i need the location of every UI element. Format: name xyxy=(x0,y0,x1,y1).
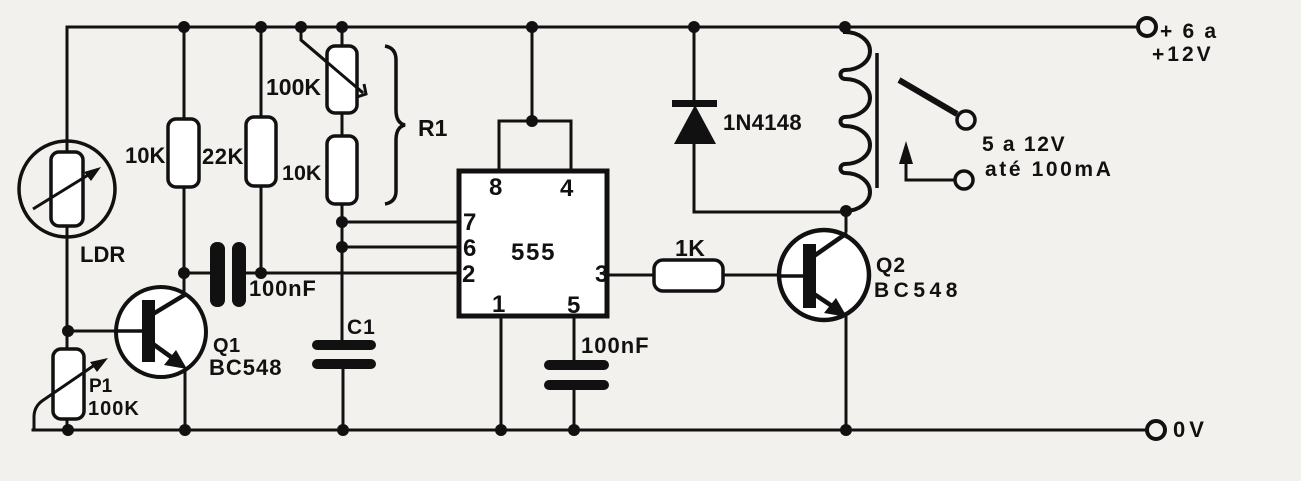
svg-text:7: 7 xyxy=(463,209,476,236)
svg-text:1K: 1K xyxy=(675,235,705,261)
svg-text:22K: 22K xyxy=(202,144,244,169)
svg-text:Q1: Q1 xyxy=(213,335,241,357)
svg-text:10K: 10K xyxy=(282,161,322,185)
svg-text:Q2: Q2 xyxy=(876,254,906,277)
svg-text:555: 555 xyxy=(511,239,556,266)
svg-text:+ 6 a: + 6 a xyxy=(1160,20,1218,43)
svg-text:1: 1 xyxy=(492,291,505,318)
svg-text:2: 2 xyxy=(462,261,475,288)
svg-text:5 a 12V: 5 a 12V xyxy=(982,133,1066,156)
svg-text:100K: 100K xyxy=(88,398,140,420)
svg-text:até 100mA: até 100mA xyxy=(985,158,1113,181)
svg-text:100nF: 100nF xyxy=(581,333,650,358)
svg-text:1N4148: 1N4148 xyxy=(723,110,802,135)
svg-text:+12V: +12V xyxy=(1152,43,1214,66)
svg-text:LDR: LDR xyxy=(80,242,125,267)
svg-text:R1: R1 xyxy=(418,115,448,141)
svg-text:8: 8 xyxy=(489,174,502,201)
svg-text:100K: 100K xyxy=(266,74,321,100)
svg-text:4: 4 xyxy=(560,175,574,202)
svg-text:5: 5 xyxy=(567,292,580,319)
svg-text:BC548: BC548 xyxy=(874,279,962,302)
svg-text:6: 6 xyxy=(463,235,476,262)
svg-text:BC548: BC548 xyxy=(209,355,282,380)
svg-text:3: 3 xyxy=(595,261,608,288)
svg-text:10K: 10K xyxy=(125,143,165,168)
svg-text:P1: P1 xyxy=(89,376,113,397)
svg-text:100nF: 100nF xyxy=(249,276,317,301)
svg-text:C1: C1 xyxy=(347,316,376,339)
svg-text:0V: 0V xyxy=(1173,417,1208,442)
